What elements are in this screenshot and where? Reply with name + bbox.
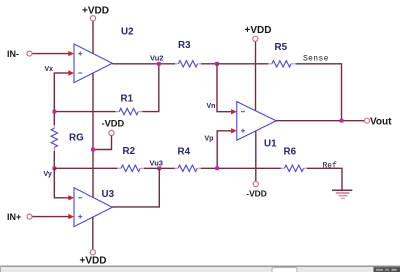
resistor RG (vertical) xyxy=(51,125,84,151)
wire U3 output up to Vu3 xyxy=(112,168,159,207)
svg-text:U1: U1 xyxy=(264,139,277,150)
node Vu3 junction dot xyxy=(150,159,163,171)
node Vu2 junction dot xyxy=(150,54,163,66)
svg-text:+VDD: +VDD xyxy=(245,25,272,36)
svg-text:IN+: IN+ xyxy=(7,212,21,222)
wire Vp vertical and into U1 noninverting input xyxy=(205,128,237,168)
svg-text:IN-: IN- xyxy=(7,49,19,59)
terminal Vout xyxy=(365,116,393,127)
svg-text:U2: U2 xyxy=(121,27,134,38)
terminal IN- xyxy=(7,49,32,59)
svg-text:-VDD: -VDD xyxy=(102,118,125,128)
wire U1 output to Vout xyxy=(276,120,364,122)
junction dot -VDD rail xyxy=(91,148,95,152)
wire R3 to Vn junction and onward to R5 xyxy=(201,63,268,65)
wire R1 to feedback corner up to Vu2 xyxy=(142,64,159,112)
node Vy junction dot xyxy=(44,167,57,179)
resistor R3 xyxy=(175,40,201,67)
op-amp U1 xyxy=(237,102,277,150)
resistor R1 xyxy=(116,94,143,115)
terminal +VDD (bottom) xyxy=(80,250,107,267)
wire -VDD stub to supply rail xyxy=(93,136,112,150)
svg-text:R5: R5 xyxy=(275,42,288,53)
svg-text:Vy: Vy xyxy=(44,171,52,178)
wire Sense feedback from R5 down to output xyxy=(296,64,342,121)
wire Vy down and right to U3 inverting input xyxy=(54,168,74,200)
wire U2 positive supply up to +VDD xyxy=(92,21,94,54)
op-amp U2 xyxy=(74,27,134,83)
svg-text:R3: R3 xyxy=(178,40,191,51)
resistor R4 xyxy=(175,147,201,172)
op-amp U3 xyxy=(74,188,115,227)
resistor R5 xyxy=(268,42,295,67)
svg-text:Vp: Vp xyxy=(205,135,214,142)
wire U1 positive supply up to +VDD xyxy=(255,41,257,110)
svg-text:R2: R2 xyxy=(123,146,136,157)
svg-text:U3: U3 xyxy=(102,189,115,200)
wire U3 positive supply down to +VDD (bottom) xyxy=(92,217,94,250)
wire IN- to U2 noninverting input xyxy=(32,51,74,56)
svg-text:Sense: Sense xyxy=(303,54,329,63)
wire RG to Vy node xyxy=(53,151,55,168)
svg-text:Vu2: Vu2 xyxy=(150,54,163,63)
wire U2 output to Vu2 node xyxy=(112,63,175,65)
ground xyxy=(332,190,352,198)
node Vn junction dot xyxy=(215,62,219,66)
svg-text:R6: R6 xyxy=(284,147,297,158)
node Vp junction dot xyxy=(215,166,219,170)
wire Vn vertical and into U1 inverting input xyxy=(207,64,237,115)
svg-text:+VDD: +VDD xyxy=(80,256,107,267)
svg-text:Ref: Ref xyxy=(323,162,338,171)
svg-text:RG: RG xyxy=(69,133,84,144)
wire Vx vertical down to RG xyxy=(53,72,55,125)
wire R6 to Ref corner and down to ground xyxy=(307,168,342,190)
svg-text:Vu3: Vu3 xyxy=(150,159,163,168)
wire R1 row from Vx junction xyxy=(54,111,115,113)
svg-text:-VDD: -VDD xyxy=(246,189,266,199)
wire Vx horizontal to U2 inverting input xyxy=(54,70,74,75)
terminal +VDD (U1) xyxy=(245,25,272,41)
wire Vy row to R2 xyxy=(54,167,117,169)
terminal -VDD (middle) xyxy=(102,118,125,135)
wire U2 negative supply down through -VDD junction to U3 positive supply xyxy=(92,73,94,198)
wire R4 to Vp junction and on to R6 xyxy=(201,167,281,169)
svg-text:Vn: Vn xyxy=(207,103,216,110)
bottom window bar xyxy=(0,266,400,272)
junction dot Sense/output xyxy=(340,119,344,123)
wire U1 negative supply down to -VDD xyxy=(255,131,257,181)
terminal -VDD (U1) xyxy=(246,181,266,198)
resistor R2 xyxy=(117,146,143,172)
svg-text:Vx: Vx xyxy=(45,66,54,73)
svg-text:+VDD: +VDD xyxy=(82,6,109,17)
node Vx/R1 junction dot xyxy=(53,110,57,114)
wire IN+ to U3 noninverting input xyxy=(32,214,74,219)
wire R2 to Vu3 junction and on to R4 xyxy=(144,167,175,169)
svg-text:Vout: Vout xyxy=(370,116,392,127)
svg-text:R4: R4 xyxy=(178,147,191,158)
resistor R6 xyxy=(281,147,307,172)
terminal IN+ xyxy=(7,212,32,222)
terminal +VDD (top) xyxy=(82,6,109,21)
svg-text:R1: R1 xyxy=(121,94,134,105)
